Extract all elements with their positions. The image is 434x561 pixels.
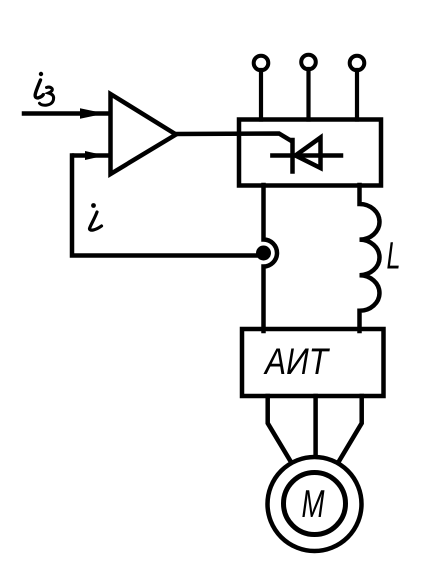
svg-text:М: М — [302, 483, 325, 526]
svg-text:АИТ: АИТ — [263, 341, 330, 382]
svg-text:L: L — [387, 236, 401, 278]
